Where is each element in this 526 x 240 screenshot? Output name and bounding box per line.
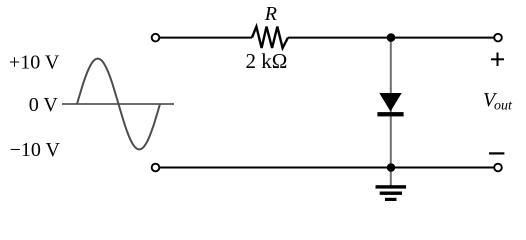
svg-text:out: out bbox=[494, 99, 513, 114]
svg-text:0 V: 0 V bbox=[29, 94, 59, 116]
svg-text:R: R bbox=[264, 3, 277, 25]
svg-text:−10 V: −10 V bbox=[10, 139, 61, 161]
svg-text:+10 V: +10 V bbox=[9, 51, 60, 73]
svg-text:2 kΩ: 2 kΩ bbox=[246, 49, 288, 73]
